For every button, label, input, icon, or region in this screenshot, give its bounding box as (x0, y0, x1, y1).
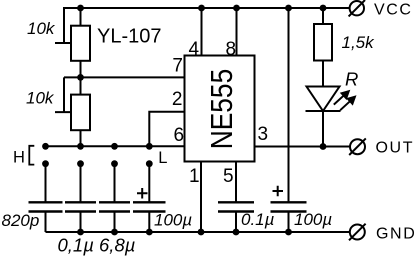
node junction pot1/pot2 on pin7 wire (77, 74, 84, 81)
wire cap C2 bottom lead (80, 212, 82, 233)
svg-text:5: 5 (223, 166, 234, 187)
wire GND bottom rail (46, 231, 351, 233)
svg-text:2: 2 (172, 89, 183, 110)
wire cap C3 top lead (114, 164, 116, 203)
svg-text:H: H (13, 149, 25, 167)
wire LED to OUT (322, 111, 324, 147)
wire VCC top rail (63, 7, 350, 9)
plus sign C4 (137, 188, 148, 199)
svg-text:10k: 10k (27, 19, 56, 38)
resistor R2 10k pot body (71, 95, 90, 131)
svg-text:10k: 10k (26, 89, 55, 108)
node pin1 on GND rail (198, 229, 205, 236)
wire pin4 (201, 8, 203, 56)
svg-text:NE555: NE555 (205, 69, 239, 150)
svg-text:6: 6 (174, 125, 185, 146)
svg-text:1: 1 (189, 166, 200, 187)
svg-text:1,5k: 1,5k (342, 33, 376, 52)
svg-text:GND: GND (376, 226, 416, 243)
wire pot2 top lead (80, 77, 82, 94)
wire pin1 (200, 162, 202, 233)
node GND C4 (146, 229, 153, 236)
LED cathode bar (306, 110, 341, 112)
wire pot2 wiper riser (55, 77, 71, 112)
wire pin7 horizontal (64, 76, 185, 78)
wire pin5 lead (235, 162, 237, 203)
capacitor C1 820p (29, 202, 63, 211)
terminal GND (350, 225, 365, 240)
wire pot1 wiper riser (55, 8, 71, 43)
wire pin2 branch (149, 112, 184, 147)
node C6 on GND rail (285, 229, 292, 236)
wire C6 bottom lead (288, 212, 290, 233)
svg-text:VCC: VCC (374, 2, 413, 19)
LED arrow 2 (340, 95, 356, 110)
node LED branch on OUT wire (320, 143, 327, 150)
svg-text:7: 7 (172, 56, 183, 77)
svg-text:0.1µ: 0.1µ (241, 210, 275, 229)
resistor R3 1,5k (314, 24, 332, 61)
svg-text:4: 4 (189, 39, 200, 60)
wire cap C1 top lead (45, 164, 47, 203)
capacitor C4 100u electrolytic (133, 202, 166, 211)
svg-text:L: L (158, 149, 167, 167)
svg-text:YL-107: YL-107 (97, 26, 162, 48)
wire pot1 bottom lead (80, 61, 82, 78)
wire cap C4 bottom lead (148, 212, 150, 233)
wire resistor to LED (322, 61, 324, 87)
svg-text:0,1µ 6,8µ: 0,1µ 6,8µ (58, 235, 136, 256)
node GND C2 (77, 229, 84, 236)
node junction pot1 top on VCC rail (77, 5, 84, 12)
LED arrow 1 (334, 90, 351, 105)
terminal OUT (350, 139, 365, 154)
node pin8 on VCC rail (233, 5, 240, 12)
capacitor C3 6,8u (99, 202, 130, 211)
terminal VCC (350, 1, 364, 15)
wire pot1 top lead (80, 8, 82, 26)
wire cap C3 bottom lead (114, 212, 116, 233)
jumper bracket (29, 146, 34, 165)
svg-text:8: 8 (226, 39, 237, 60)
wire decoupling riser (288, 8, 290, 202)
capacitor C6 100u electrolytic (271, 202, 307, 211)
svg-text:OUT: OUT (376, 140, 415, 157)
node H2 pot2 bottom junction (77, 143, 84, 150)
node decap on VCC rail (285, 5, 292, 12)
wire pin6 H rail (46, 145, 185, 147)
node H1 (42, 143, 49, 150)
wire cap C4 top lead (148, 164, 150, 203)
node L2 (77, 160, 84, 167)
op-amp U1 NE555 box (185, 56, 255, 162)
svg-text:R: R (345, 69, 358, 90)
node L4 (146, 160, 153, 167)
wire LED branch top (322, 8, 324, 24)
node GND C3 (111, 229, 118, 236)
wire cap C1 bottom lead (45, 212, 47, 233)
svg-text:820p: 820p (2, 211, 40, 230)
wire pin8 (236, 8, 238, 56)
wire cap C2 top lead (80, 164, 82, 203)
svg-text:3: 3 (258, 124, 269, 145)
node L1 (42, 160, 49, 167)
node pin4 on VCC rail (198, 5, 205, 12)
capacitor C5 0.1u (218, 202, 254, 211)
capacitor C2 0,1u (65, 202, 96, 211)
wire pin3 OUT (255, 146, 350, 148)
node L3 (111, 160, 118, 167)
node C5 on GND rail (233, 229, 240, 236)
svg-text:100µ: 100µ (294, 210, 332, 229)
svg-text:100µ: 100µ (154, 211, 192, 230)
resistor R1 10k pot body (71, 26, 90, 61)
node LED branch on VCC rail (320, 5, 327, 12)
plus sign C6 (273, 186, 284, 196)
wire pot2 bottom lead (80, 130, 82, 146)
node H3 (111, 143, 118, 150)
wire C5 bottom lead (235, 212, 237, 233)
node H4 pin2 branch junction (146, 143, 153, 150)
LED D1 triangle (307, 87, 340, 112)
